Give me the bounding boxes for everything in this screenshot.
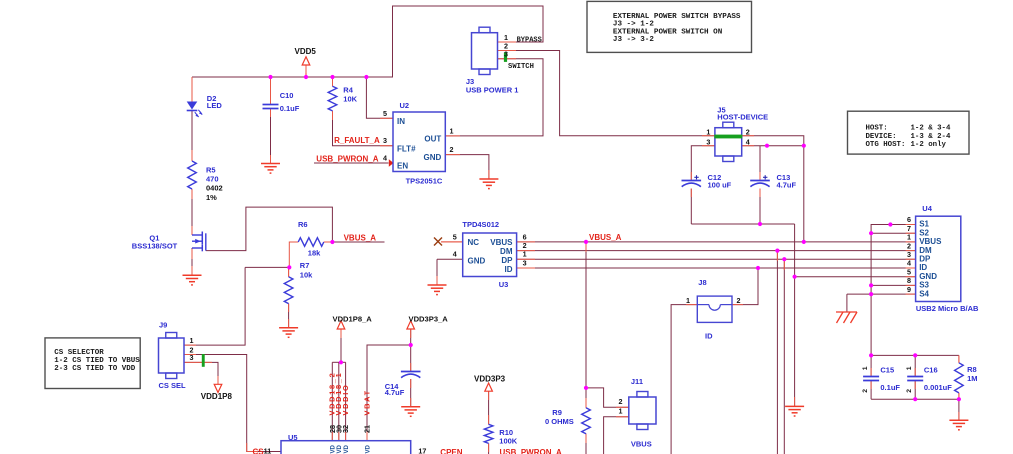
- svg-text:DEVICE:: DEVICE:: [866, 133, 897, 141]
- svg-text:CS SELECTOR: CS SELECTOR: [54, 349, 104, 357]
- svg-text:GND: GND: [424, 153, 442, 162]
- svg-text:VD: VD: [331, 444, 337, 453]
- svg-text:R5: R5: [206, 166, 216, 175]
- svg-text:3: 3: [383, 136, 387, 145]
- svg-text:100 uF: 100 uF: [708, 180, 732, 189]
- svg-text:ID: ID: [705, 332, 713, 341]
- svg-text:DP: DP: [919, 255, 931, 264]
- svg-text:2: 2: [862, 389, 869, 393]
- svg-text:6: 6: [523, 232, 527, 241]
- svg-text:3: 3: [504, 50, 508, 59]
- svg-text:2: 2: [906, 389, 913, 393]
- svg-text:EN: EN: [397, 162, 408, 171]
- svg-text:SWITCH: SWITCH: [508, 63, 534, 71]
- svg-text:VDD5: VDD5: [295, 47, 317, 56]
- svg-text:VD: VD: [344, 444, 350, 453]
- svg-text:ID: ID: [505, 265, 513, 274]
- svg-text:IN: IN: [397, 117, 405, 126]
- svg-text:USB POWER 1: USB POWER 1: [466, 86, 519, 95]
- svg-text:1M: 1M: [967, 374, 977, 383]
- svg-text:U5: U5: [288, 433, 298, 442]
- svg-text:100K: 100K: [499, 437, 518, 446]
- svg-text:S2: S2: [919, 228, 929, 237]
- svg-text:1-2 & 3-4: 1-2 & 3-4: [911, 125, 951, 133]
- svg-text:VBUS: VBUS: [919, 237, 942, 246]
- svg-text:0.1uF: 0.1uF: [880, 383, 900, 392]
- svg-text:0402: 0402: [206, 184, 223, 193]
- svg-text:2: 2: [619, 397, 623, 406]
- svg-text:BSS138/SOT: BSS138/SOT: [132, 242, 178, 251]
- svg-text:ID: ID: [919, 263, 927, 272]
- svg-text:J3 -> 1-2: J3 -> 1-2: [613, 21, 654, 29]
- svg-text:4: 4: [907, 259, 911, 268]
- svg-text:VDD3P3_A: VDD3P3_A: [409, 314, 449, 323]
- svg-text:1-3 & 2-4: 1-3 & 2-4: [911, 133, 951, 141]
- svg-text:CS: CS: [253, 447, 265, 454]
- svg-text:VDDIO: VDDIO: [341, 384, 350, 416]
- svg-text:1: 1: [619, 407, 623, 416]
- svg-text:1: 1: [706, 128, 710, 137]
- svg-text:VBUS: VBUS: [631, 440, 652, 449]
- svg-text:2: 2: [450, 145, 454, 154]
- svg-text:U3: U3: [499, 280, 509, 289]
- svg-text:HOST-DEVICE: HOST-DEVICE: [717, 112, 768, 121]
- svg-text:S3: S3: [919, 281, 929, 290]
- svg-text:J11: J11: [631, 377, 643, 386]
- svg-text:VDD3P3: VDD3P3: [474, 374, 506, 383]
- svg-text:2-3 CS TIED TO VDD: 2-3 CS TIED TO VDD: [54, 365, 136, 373]
- svg-text:R4: R4: [343, 85, 353, 94]
- svg-text:VD: VD: [337, 444, 343, 453]
- svg-text:1%: 1%: [206, 193, 217, 202]
- svg-text:VDD1P8: VDD1P8: [201, 392, 233, 401]
- svg-text:4: 4: [746, 137, 750, 146]
- svg-text:R9: R9: [552, 408, 562, 417]
- svg-text:USB_PWRON_A: USB_PWRON_A: [500, 448, 562, 454]
- svg-text:C15: C15: [880, 365, 894, 374]
- svg-text:3: 3: [190, 353, 194, 362]
- svg-text:5: 5: [453, 232, 457, 241]
- svg-text:2: 2: [907, 241, 911, 250]
- svg-text:1-2 CS TIED TO VBUS: 1-2 CS TIED TO VBUS: [54, 357, 140, 365]
- svg-text:GND: GND: [919, 272, 937, 281]
- svg-text:1: 1: [906, 366, 913, 370]
- svg-text:1: 1: [450, 126, 454, 135]
- svg-text:TPS2051C: TPS2051C: [406, 176, 443, 185]
- svg-text:1-2 only: 1-2 only: [911, 141, 947, 149]
- svg-text:1: 1: [907, 233, 911, 242]
- svg-text:6: 6: [907, 215, 911, 224]
- svg-text:4: 4: [453, 250, 457, 259]
- svg-text:VBAT: VBAT: [362, 389, 371, 415]
- svg-text:USB_PWRON_A: USB_PWRON_A: [316, 154, 378, 163]
- svg-text:R7: R7: [300, 261, 310, 270]
- svg-text:3: 3: [706, 137, 710, 146]
- svg-text:7: 7: [907, 224, 911, 233]
- svg-text:U2: U2: [400, 101, 410, 110]
- svg-text:5: 5: [907, 267, 911, 276]
- svg-text:U4: U4: [922, 204, 932, 213]
- svg-text:9: 9: [907, 285, 911, 294]
- svg-text:VBUS: VBUS: [490, 238, 513, 247]
- svg-text:J8: J8: [698, 278, 706, 287]
- svg-text:TPD4S012: TPD4S012: [462, 220, 499, 229]
- svg-text:1: 1: [190, 336, 194, 345]
- svg-text:1: 1: [862, 366, 869, 370]
- svg-text:0.001uF: 0.001uF: [924, 383, 952, 392]
- svg-text:EXTERNAL POWER SWITCH BYPASS: EXTERNAL POWER SWITCH BYPASS: [613, 13, 741, 21]
- svg-text:VBUS_A: VBUS_A: [344, 234, 377, 243]
- svg-text:0.1uF: 0.1uF: [280, 104, 300, 113]
- svg-text:VDD1P8_A: VDD1P8_A: [333, 314, 373, 323]
- svg-text:32: 32: [341, 425, 350, 433]
- svg-text:S1: S1: [919, 220, 929, 229]
- svg-text:21: 21: [363, 425, 372, 433]
- svg-text:VBUS_A: VBUS_A: [589, 233, 622, 242]
- svg-text:EXTERNAL POWER SWITCH ON: EXTERNAL POWER SWITCH ON: [613, 28, 723, 36]
- svg-text:5: 5: [383, 109, 387, 118]
- svg-text:R_FAULT_A: R_FAULT_A: [334, 136, 380, 145]
- svg-text:GND: GND: [468, 256, 486, 265]
- svg-text:470: 470: [206, 175, 219, 184]
- svg-text:10k: 10k: [300, 271, 313, 280]
- svg-text:4.7uF: 4.7uF: [385, 388, 405, 397]
- svg-text:2: 2: [746, 128, 750, 137]
- svg-text:18k: 18k: [308, 249, 321, 258]
- svg-text:NC: NC: [468, 238, 480, 247]
- svg-text:LED: LED: [207, 101, 223, 110]
- svg-text:S4: S4: [919, 289, 929, 298]
- svg-text:DM: DM: [500, 247, 513, 256]
- svg-text:CPEN: CPEN: [440, 448, 462, 454]
- svg-text:1: 1: [686, 296, 690, 305]
- svg-text:OTG HOST:: OTG HOST:: [866, 141, 906, 149]
- svg-text:4: 4: [383, 154, 387, 163]
- svg-text:C10: C10: [280, 91, 294, 100]
- svg-text:17: 17: [418, 447, 426, 454]
- svg-text:R8: R8: [967, 365, 977, 374]
- svg-text:0 OHMS: 0 OHMS: [545, 417, 574, 426]
- svg-text:FLT#: FLT#: [397, 144, 416, 153]
- svg-text:J3 -> 3-2: J3 -> 3-2: [613, 36, 654, 44]
- svg-text:BYPASS: BYPASS: [517, 37, 542, 45]
- svg-text:11: 11: [264, 446, 272, 454]
- svg-text:3: 3: [523, 259, 527, 268]
- svg-text:10K: 10K: [343, 95, 357, 104]
- svg-text:R10: R10: [499, 428, 513, 437]
- svg-text:USB2 Micro B/AB: USB2 Micro B/AB: [916, 304, 979, 313]
- svg-text:DM: DM: [919, 246, 932, 255]
- svg-text:8: 8: [907, 276, 911, 285]
- svg-text:OUT: OUT: [424, 135, 441, 144]
- svg-text:3: 3: [907, 250, 911, 259]
- svg-text:J9: J9: [159, 321, 167, 330]
- svg-text:1: 1: [523, 250, 527, 259]
- svg-text:CS SEL: CS SEL: [159, 381, 187, 390]
- svg-text:R6: R6: [298, 220, 308, 229]
- svg-text:HOST:: HOST:: [866, 125, 888, 133]
- svg-text:VD: VD: [365, 444, 371, 453]
- svg-text:C16: C16: [924, 365, 938, 374]
- svg-text:2: 2: [737, 296, 741, 305]
- svg-text:DP: DP: [501, 256, 513, 265]
- svg-text:4.7uF: 4.7uF: [777, 180, 797, 189]
